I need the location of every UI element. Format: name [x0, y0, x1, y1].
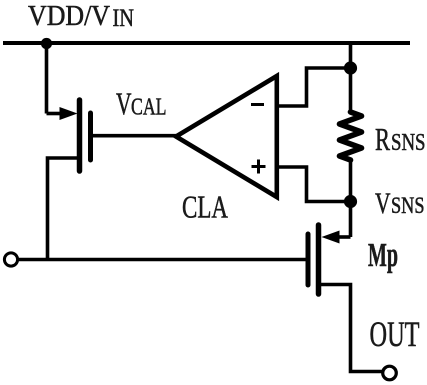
svg-text:V: V	[116, 86, 132, 122]
svg-text:CLA: CLA	[182, 189, 228, 225]
svg-text:VDD/V: VDD/V	[28, 1, 110, 32]
svg-text:V: V	[375, 187, 391, 220]
svg-text:CAL: CAL	[131, 95, 167, 121]
svg-text:IN: IN	[113, 3, 135, 32]
svg-text:SNS: SNS	[391, 130, 426, 156]
svg-text:Mp: Mp	[368, 237, 398, 274]
svg-text:R: R	[375, 121, 390, 157]
svg-text:SNS: SNS	[391, 193, 425, 218]
svg-text:OUT: OUT	[370, 314, 420, 354]
